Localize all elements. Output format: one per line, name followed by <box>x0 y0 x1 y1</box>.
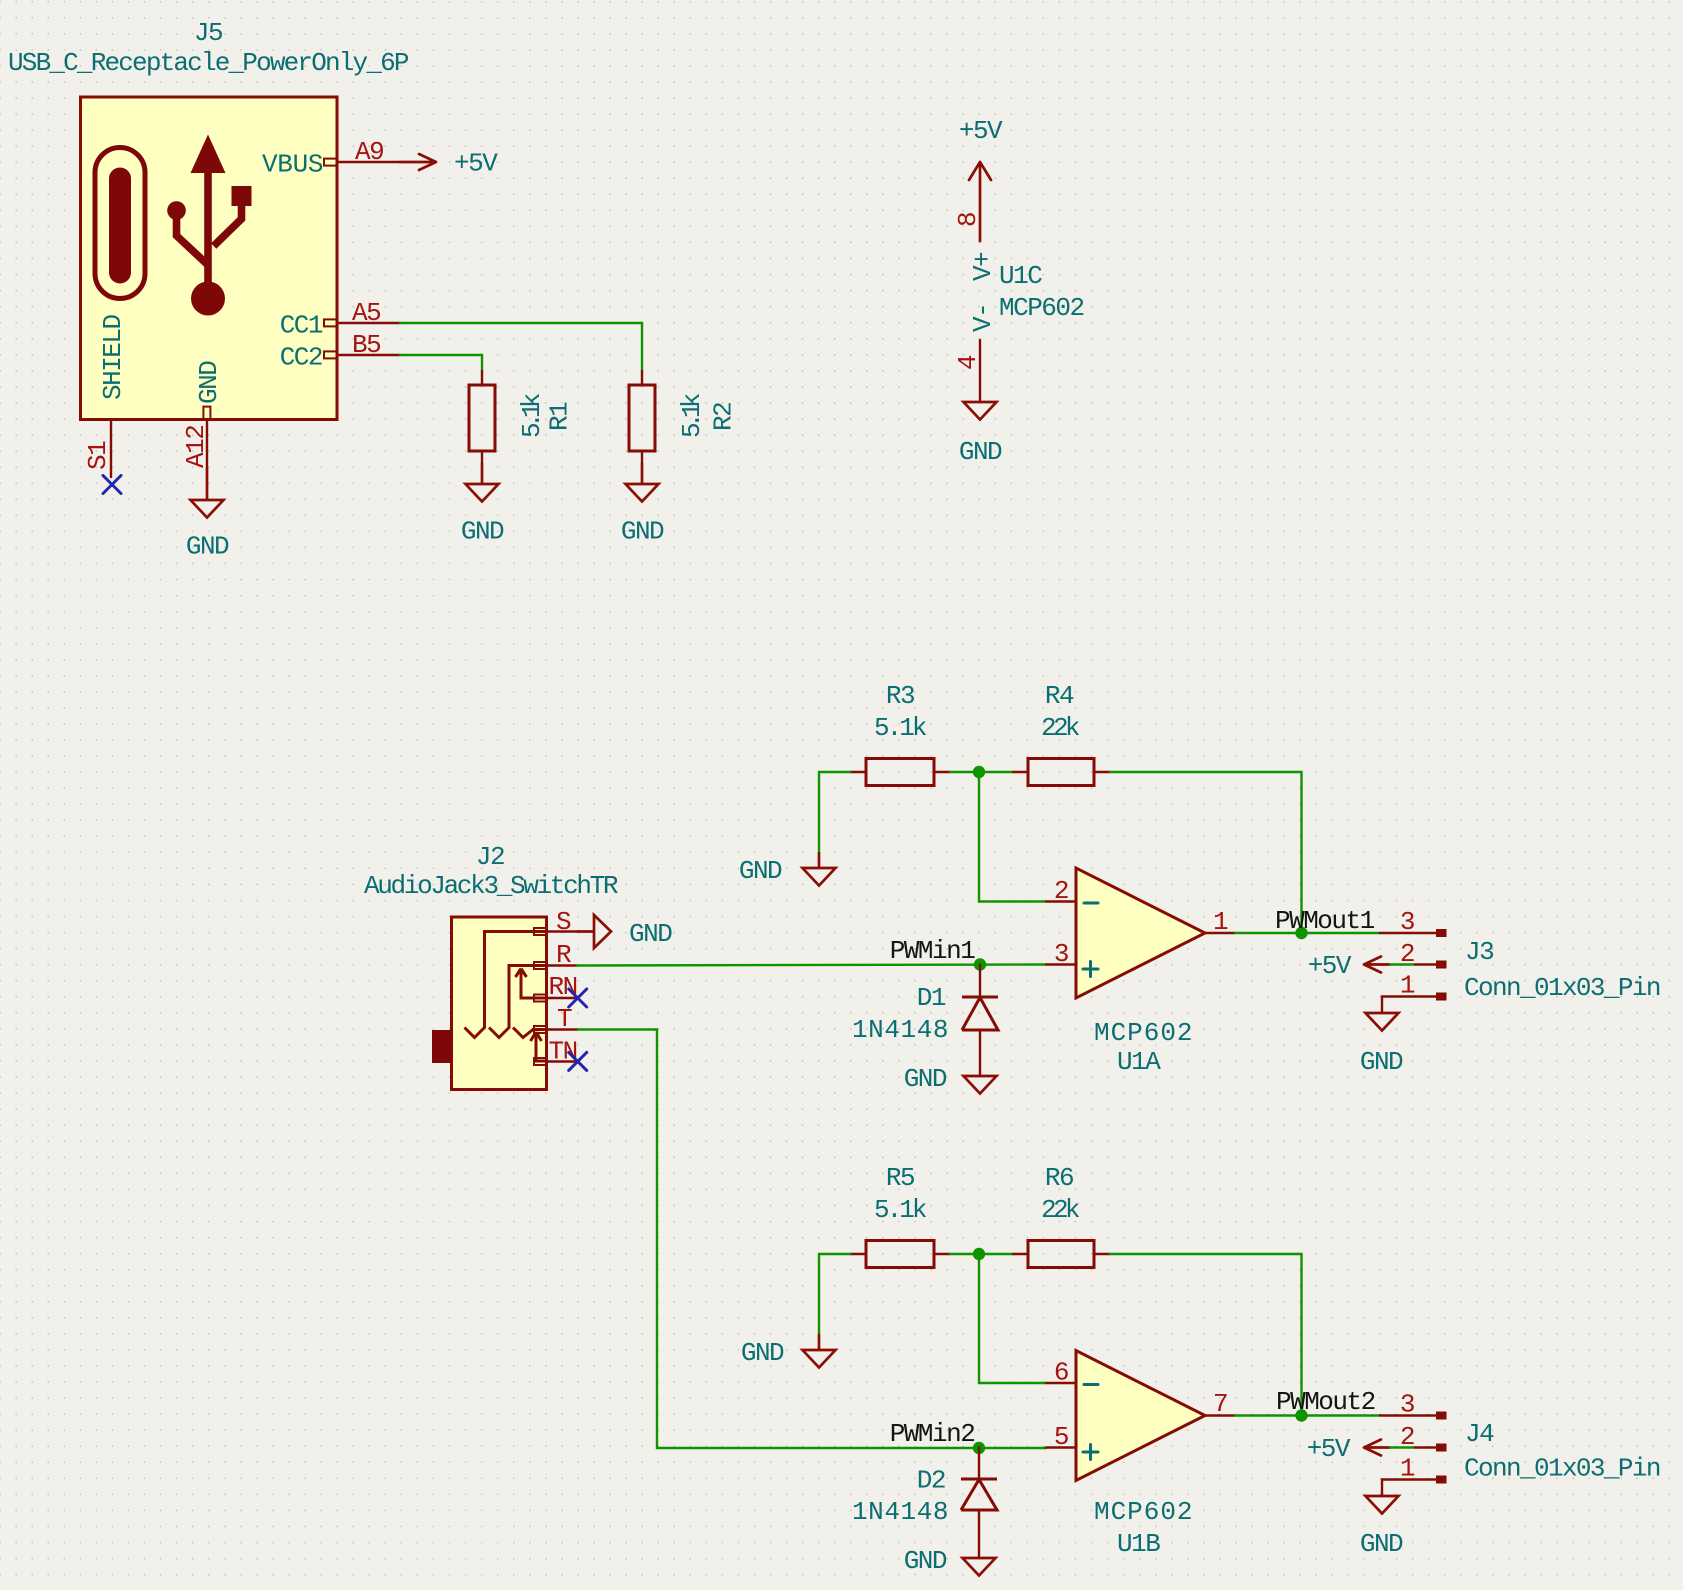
svg-text:5.1k: 5.1k <box>517 393 547 438</box>
svg-text:4: 4 <box>953 355 983 370</box>
audio jack J2 tip contact graphic <box>513 1028 547 1038</box>
pin S of J2 <box>534 907 578 937</box>
svg-text:SHIELD: SHIELD <box>98 314 128 400</box>
svg-text:5.1k: 5.1k <box>874 713 927 743</box>
resistor R1 <box>469 371 575 464</box>
pin SHIELD (S1) of J5 <box>83 314 128 477</box>
wire R5 left to ground <box>819 1254 850 1335</box>
svg-text:S1: S1 <box>83 441 113 470</box>
svg-text:+5V: +5V <box>1308 951 1352 981</box>
svg-text:GND: GND <box>904 1064 947 1094</box>
pin 3 of J3 <box>1380 907 1447 937</box>
pin T of J2 <box>534 1004 578 1034</box>
svg-text:D1: D1 <box>917 983 946 1013</box>
pin 2 of U1A <box>1046 876 1076 906</box>
svg-text:J4: J4 <box>1465 1419 1494 1449</box>
audio jack J2 tip-switch graphic <box>531 1032 548 1061</box>
wire PWMin1 from J2 R pin to U1A non-inverting input <box>577 965 1046 966</box>
svg-text:J5: J5 <box>194 18 222 48</box>
svg-text:1: 1 <box>1400 1454 1415 1484</box>
pin VBUS (A9) of J5 <box>262 137 400 180</box>
svg-text:GND: GND <box>186 532 229 562</box>
resistor R6 <box>1013 1163 1110 1268</box>
resistor R5 <box>850 1163 950 1268</box>
svg-text:PWMout2: PWMout2 <box>1276 1387 1375 1417</box>
op-amp U1A <box>1076 868 1205 1077</box>
svg-text:PWMin2: PWMin2 <box>890 1419 975 1449</box>
ground symbol at J4 pin 1 <box>1360 1496 1403 1559</box>
svg-text:6: 6 <box>1054 1358 1068 1388</box>
svg-text:A5: A5 <box>352 298 380 328</box>
svg-text:GND: GND <box>461 517 504 547</box>
svg-text:A9: A9 <box>355 137 383 167</box>
power symbol +5V at J4 pin 2 <box>1307 1434 1390 1464</box>
svg-text:2: 2 <box>1400 939 1414 969</box>
no-connect X on SHIELD pin <box>103 476 121 494</box>
wire from J2 T pin to PWMin2 <box>578 1030 1046 1449</box>
pin 3 of U1A <box>1046 939 1076 969</box>
audio jack J2 ring-switch graphic <box>516 969 548 999</box>
svg-text:1: 1 <box>1400 971 1415 1001</box>
svg-text:GND: GND <box>741 1338 784 1368</box>
svg-text:GND: GND <box>194 361 224 404</box>
svg-text:J3: J3 <box>1465 937 1493 967</box>
svg-text:R2: R2 <box>709 403 739 431</box>
diode D1 <box>852 965 998 1077</box>
ground symbol at U1C pin 4 <box>959 402 1002 467</box>
svg-text:22k: 22k <box>1041 1195 1080 1225</box>
op-amp U1B <box>1076 1351 1205 1560</box>
pin 2 of J4 <box>1400 1422 1447 1452</box>
pin CC1 (A5) of J5 <box>280 298 400 341</box>
svg-text:D2: D2 <box>917 1466 945 1496</box>
svg-text:+5V: +5V <box>1307 1434 1351 1464</box>
svg-text:5: 5 <box>1054 1422 1068 1452</box>
pin R of J2 <box>534 940 577 970</box>
wire junction to U1A inverting input <box>979 772 1046 902</box>
svg-text:R1: R1 <box>545 402 575 431</box>
svg-text:GND: GND <box>621 517 664 547</box>
svg-text:J2: J2 <box>476 842 504 872</box>
svg-text:V-: V- <box>968 304 998 332</box>
svg-text:3: 3 <box>1054 939 1068 969</box>
svg-text:+5V: +5V <box>454 149 498 179</box>
wire CC1 to R2 <box>400 323 642 371</box>
resistor R2 <box>629 371 739 464</box>
audio jack J2 sleeve tab <box>432 1030 452 1063</box>
pin RN of J2 <box>534 972 577 1002</box>
svg-text:5.1k: 5.1k <box>874 1195 927 1225</box>
wire R4 right to PWMout1 feedback <box>1110 772 1302 933</box>
ground symbol at D2 <box>904 1546 996 1576</box>
svg-text:2: 2 <box>1054 876 1068 906</box>
pin 1 of J3 <box>1382 971 1447 1014</box>
pin 8 (V+) of U1C with +5V arrow <box>953 162 998 281</box>
ground symbol at R1 <box>461 464 504 547</box>
svg-text:GND: GND <box>739 856 782 886</box>
svg-text:2: 2 <box>1400 1422 1414 1452</box>
svg-text:Conn_01x03_Pin: Conn_01x03_Pin <box>1464 1454 1660 1484</box>
svg-text:R6: R6 <box>1045 1163 1073 1193</box>
svg-text:+5V: +5V <box>959 116 1003 146</box>
audio jack J2 ring contact graphic <box>489 966 547 1038</box>
pin TN of J2 <box>534 1037 577 1067</box>
svg-text:PWMout1: PWMout1 <box>1275 906 1375 936</box>
svg-text:RN: RN <box>549 972 577 1002</box>
svg-text:V+: V+ <box>968 252 998 281</box>
svg-text:CC1: CC1 <box>280 311 323 341</box>
svg-text:MCP602: MCP602 <box>999 293 1084 323</box>
svg-text:CC2: CC2 <box>280 343 322 373</box>
pin 2 of J3 <box>1400 939 1447 969</box>
junction on PWMin2 at D2 <box>973 1442 985 1454</box>
svg-text:R5: R5 <box>886 1163 914 1193</box>
no-connect X on J2 pin RN <box>569 989 587 1007</box>
pin GND (A12) of J5 <box>181 361 224 468</box>
wire CC2 to R1 <box>400 355 482 371</box>
pin 3 of J4 <box>1380 1390 1447 1420</box>
svg-text:B5: B5 <box>352 330 380 360</box>
USB trident icon <box>167 135 251 316</box>
svg-text:A12: A12 <box>181 426 211 468</box>
pin 6 of U1B <box>1046 1358 1076 1388</box>
ground symbol left of R5 <box>741 1335 836 1368</box>
junction on PWMout1 <box>1295 927 1307 939</box>
svg-text:GND: GND <box>1360 1047 1403 1077</box>
svg-text:S: S <box>556 907 571 937</box>
pin 4 (V-) of U1C <box>953 304 998 402</box>
wire R6 right to PWMout2 feedback <box>1110 1254 1302 1416</box>
svg-text:5.1k: 5.1k <box>677 393 707 438</box>
svg-text:U1A: U1A <box>1117 1047 1161 1077</box>
svg-text:TN: TN <box>549 1037 577 1067</box>
svg-text:GND: GND <box>959 437 1002 467</box>
svg-text:AudioJack3_SwitchTR: AudioJack3_SwitchTR <box>364 871 618 901</box>
pin 1 of J4 <box>1382 1454 1447 1497</box>
svg-text:USB_C_Receptacle_PowerOnly_6P: USB_C_Receptacle_PowerOnly_6P <box>8 48 409 78</box>
resistor R3 <box>850 681 950 786</box>
wire R3 right to junction <box>950 771 1013 773</box>
svg-text:U1B: U1B <box>1117 1529 1160 1559</box>
svg-text:1: 1 <box>1213 907 1228 937</box>
power symbol +5V at VBUS <box>400 149 498 179</box>
svg-text:GND: GND <box>1360 1529 1403 1559</box>
USB-C plug icon (capsule) <box>95 148 145 299</box>
svg-text:U1C: U1C <box>999 261 1042 291</box>
ground symbol left of R3 <box>739 853 836 886</box>
connector J5 body <box>81 97 338 420</box>
svg-text:T: T <box>557 1004 572 1034</box>
svg-text:R3: R3 <box>886 681 914 711</box>
wire U1B output to J4 <box>1235 1414 1380 1416</box>
svg-text:Conn_01x03_Pin: Conn_01x03_Pin <box>1464 973 1660 1003</box>
power symbol +5V at J3 pin 2 <box>1308 951 1390 981</box>
svg-text:R: R <box>556 940 571 970</box>
svg-text:GND: GND <box>904 1546 947 1576</box>
svg-text:PWMin1: PWMin1 <box>890 936 976 966</box>
svg-text:3: 3 <box>1400 907 1414 937</box>
wire R5 right to junction <box>950 1253 1013 1255</box>
svg-text:GND: GND <box>629 919 672 949</box>
pin CC2 (B5) of J5 <box>280 330 400 373</box>
svg-text:R4: R4 <box>1045 681 1074 711</box>
junction on PWMout2 <box>1295 1409 1307 1421</box>
resistor R4 <box>1013 681 1110 786</box>
junction on PWMin1 at D1 <box>974 958 986 970</box>
junction between R5 and R6 <box>973 1248 985 1260</box>
svg-text:3: 3 <box>1400 1390 1414 1420</box>
wire U1A output to J3 <box>1235 932 1380 934</box>
pin 7 of U1B <box>1205 1389 1235 1419</box>
ground symbol at J3 pin 1 <box>1360 1013 1403 1077</box>
junction between R3 and R4 <box>973 766 985 778</box>
no-connect X on J2 pin TN <box>569 1052 587 1070</box>
svg-text:7: 7 <box>1213 1389 1227 1419</box>
ground symbol at D1 <box>904 1064 997 1094</box>
svg-text:VBUS: VBUS <box>262 150 323 180</box>
svg-text:8: 8 <box>953 213 983 227</box>
audio jack J2 sleeve contact graphic <box>465 932 548 1038</box>
diode D2 <box>852 1448 997 1559</box>
ground symbol at J2 pin S <box>578 915 672 949</box>
wire R3 left to ground <box>819 772 850 853</box>
audio jack J2 body <box>452 917 547 1090</box>
pin 5 of U1B <box>1046 1422 1076 1452</box>
wire +5V to J3 pin 2 <box>1390 963 1415 965</box>
wire junction to U1B inverting input <box>979 1254 1046 1383</box>
ground symbol at R2 <box>621 464 664 547</box>
ground symbol at J5 pin A12 <box>186 468 229 562</box>
svg-text:22k: 22k <box>1041 713 1080 743</box>
pin 1 of U1A <box>1205 907 1235 937</box>
wire +5V to J4 pin 2 <box>1390 1446 1415 1448</box>
